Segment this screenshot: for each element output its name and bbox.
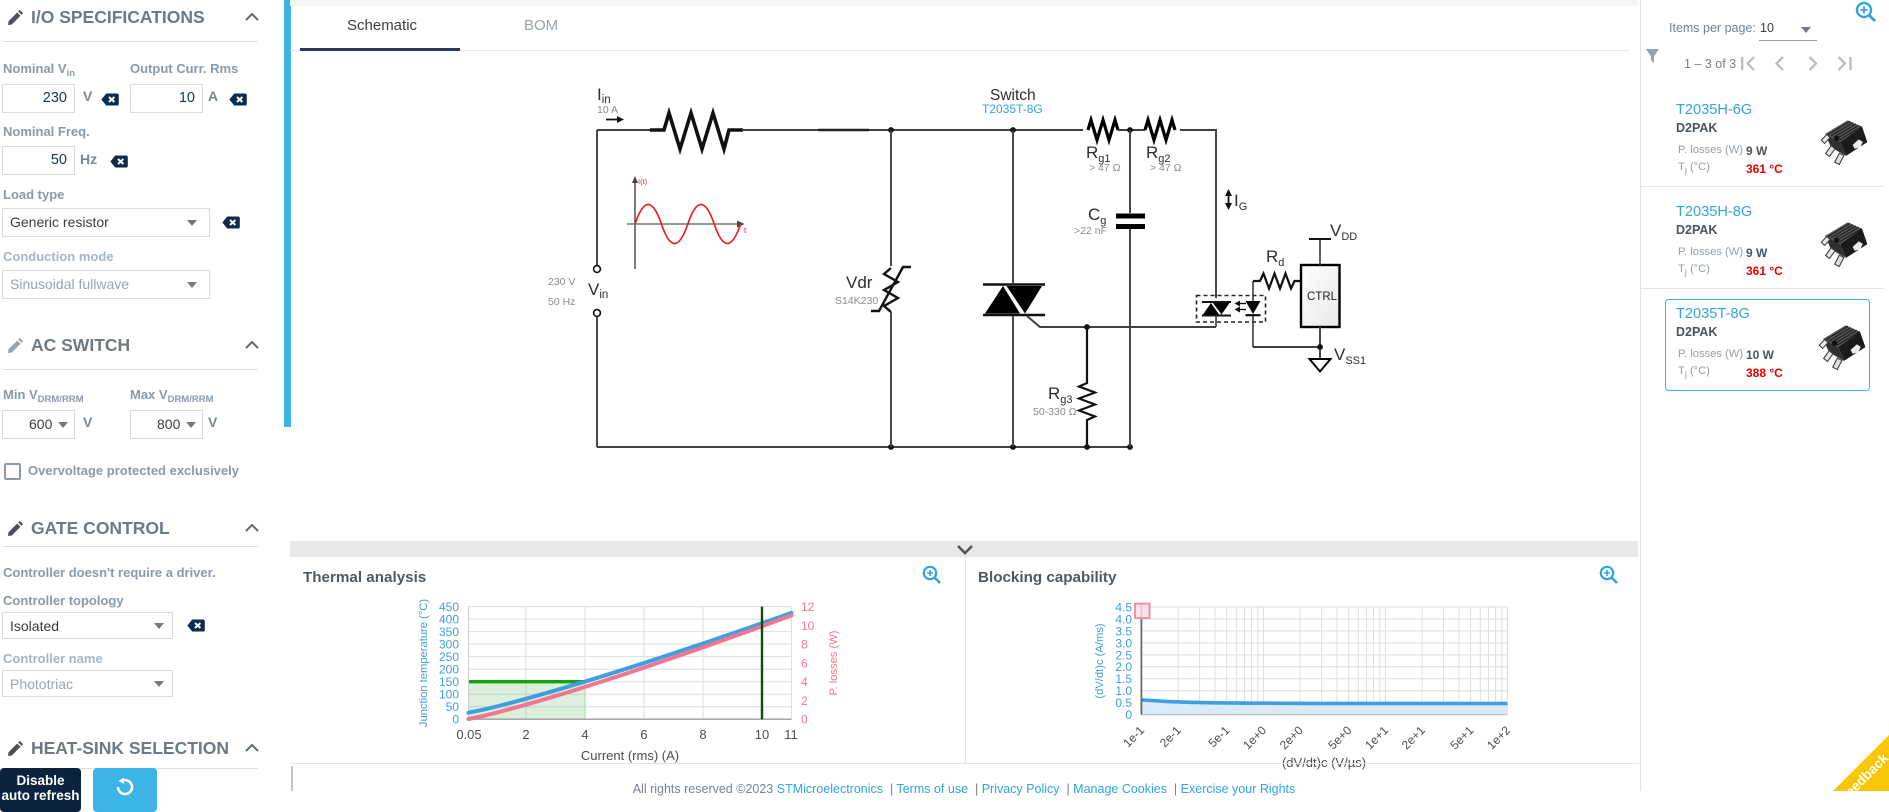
ground VSS1 <box>1310 359 1331 372</box>
svg-text:2e+1: 2e+1 <box>1399 723 1428 752</box>
optocoupler U1 dashed box <box>1197 296 1266 323</box>
svg-text:Iin: Iin <box>597 85 611 106</box>
GATE CONTROL header <box>0 520 283 542</box>
svg-text:10 A: 10 A <box>597 104 618 116</box>
node gate/Rg3 <box>1084 324 1090 330</box>
svg-text:0: 0 <box>452 713 459 727</box>
AC SWITCH header <box>0 337 283 359</box>
svg-text:1e-1: 1e-1 <box>1120 723 1147 750</box>
wire Rg1-Rg2 <box>1118 129 1145 131</box>
svg-text:1e+2: 1e+2 <box>1484 723 1513 752</box>
svg-text:230 V: 230 V <box>548 276 575 288</box>
varistor Vdr S14K230 <box>871 267 911 312</box>
wire triac branch upper <box>1012 130 1014 283</box>
card 1 <box>1676 102 1752 118</box>
svg-text:Vdr: Vdr <box>846 273 873 292</box>
node B (triac tap) <box>1010 127 1016 133</box>
wire LED to ground node <box>1253 346 1320 348</box>
resistor Rd <box>1253 274 1301 289</box>
resistor Rg3 <box>1079 327 1095 447</box>
LED D1 <box>1246 281 1261 347</box>
svg-text:T2035T-8G: T2035T-8G <box>982 102 1043 116</box>
svg-text:I(t): I(t) <box>638 177 648 186</box>
current arrow Iin <box>606 116 624 123</box>
wire triac gate <box>1027 316 1216 327</box>
svg-text:Vin: Vin <box>588 280 608 301</box>
svg-text:6: 6 <box>801 656 808 670</box>
triac Switch T2035T-8G <box>983 285 1045 316</box>
svg-text:Junction temperature (°C): Junction temperature (°C) <box>418 599 430 727</box>
wire Cg branch upper <box>1129 130 1131 213</box>
svg-text:2: 2 <box>801 694 808 708</box>
svg-text:> 47 Ω: > 47 Ω <box>1089 162 1121 174</box>
node bottom Rg3 <box>1084 444 1090 450</box>
wire bottom rail <box>597 446 1131 448</box>
wire to opto branch <box>1180 130 1216 298</box>
wire CTRL bottom <box>1319 327 1321 358</box>
wire left vertical lower <box>596 317 598 447</box>
opto triac <box>1202 302 1231 327</box>
right panel <box>1854 0 1878 24</box>
tab bar <box>290 0 1638 6</box>
schematic drawing <box>290 55 1638 541</box>
svg-text:t: t <box>744 226 747 235</box>
resistor Rg1 <box>1088 120 1118 140</box>
svg-text:0: 0 <box>1125 708 1132 722</box>
svg-text:5e-1: 5e-1 <box>1206 723 1233 750</box>
card 3 selected <box>1665 299 1870 391</box>
svg-text:VDD: VDD <box>1330 221 1357 243</box>
svg-text:2e+0: 2e+0 <box>1277 723 1306 752</box>
svg-text:CTRL: CTRL <box>1307 291 1338 303</box>
HEAT-SINK SELECTION header <box>0 740 283 762</box>
svg-text:(dV/dt)c (A/ms): (dV/dt)c (A/ms) <box>1094 623 1106 698</box>
svg-text:Current (rms) (A): Current (rms) (A) <box>581 748 679 763</box>
svg-text:10: 10 <box>801 619 815 633</box>
resistor Rg2 <box>1145 120 1175 140</box>
wire Vdr branch upper <box>890 130 892 266</box>
svg-text:4: 4 <box>801 675 808 689</box>
svg-text:P. losses (W): P. losses (W) <box>828 630 840 695</box>
svg-text:2: 2 <box>522 727 529 742</box>
Blocking capability panel <box>978 569 1116 586</box>
schematic text labels <box>548 85 1366 418</box>
svg-text:50 Hz: 50 Hz <box>548 296 575 308</box>
svg-text:5e+0: 5e+0 <box>1325 723 1354 752</box>
svg-text:S14K230: S14K230 <box>835 295 878 307</box>
svg-text:12: 12 <box>801 600 815 614</box>
sine source plot <box>627 176 747 269</box>
svg-text:> 47 Ω: > 47 Ω <box>1150 162 1182 174</box>
svg-text:8: 8 <box>699 727 706 742</box>
wire top rail middle <box>742 129 1083 131</box>
resistor input (load) <box>650 113 743 149</box>
node bottom Cg <box>1127 444 1133 450</box>
wire top rail left <box>597 129 655 131</box>
Thermal analysis panel <box>303 569 426 586</box>
wire Vdr branch lower <box>890 312 892 447</box>
current arrow IG <box>1225 189 1232 210</box>
wire Cg branch lower <box>1129 229 1131 447</box>
svg-text:IG: IG <box>1234 191 1247 213</box>
svg-text:Rg3: Rg3 <box>1048 384 1073 406</box>
terminal Vin - <box>594 310 601 317</box>
svg-text:4: 4 <box>581 727 588 742</box>
wire triac branch lower <box>1012 316 1014 447</box>
power VDD <box>1309 239 1331 265</box>
I/O SPECIFICATIONS header <box>0 9 283 31</box>
svg-text:VSS1: VSS1 <box>1334 345 1366 367</box>
svg-text:6: 6 <box>640 727 647 742</box>
node VSS1 <box>1317 344 1323 350</box>
node C (Rg1/Rg2/Cg) <box>1127 127 1133 133</box>
node bottom triac <box>1010 444 1016 450</box>
svg-text:1e+0: 1e+0 <box>1240 723 1269 752</box>
svg-text:Rd: Rd <box>1266 247 1284 269</box>
capacitor Cg <box>1116 216 1145 227</box>
terminal Vin + <box>594 266 601 273</box>
svg-text:0: 0 <box>801 713 808 727</box>
wire segment (bold) <box>818 129 869 132</box>
card 2 <box>1676 204 1752 220</box>
svg-text:1e+1: 1e+1 <box>1362 723 1391 752</box>
svg-text:10: 10 <box>755 727 769 742</box>
svg-text:11: 11 <box>784 727 798 742</box>
svg-text:Cg: Cg <box>1088 205 1106 227</box>
svg-text:>22 nF: >22 nF <box>1074 225 1107 237</box>
svg-text:0.05: 0.05 <box>456 727 481 742</box>
svg-text:50-330 Ω: 50-330 Ω <box>1033 406 1077 418</box>
opto light arrows <box>1235 301 1247 313</box>
wire left vertical (Vin) <box>596 130 598 265</box>
svg-text:2e-1: 2e-1 <box>1157 723 1184 750</box>
node bottom Vdr <box>888 444 894 450</box>
node A (Vdr tap) <box>888 127 894 133</box>
svg-text:5e+1: 5e+1 <box>1447 723 1476 752</box>
svg-text:8: 8 <box>801 638 808 652</box>
